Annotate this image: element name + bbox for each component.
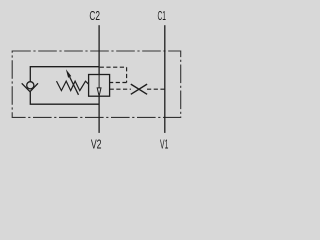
relief valve flow arrow [97, 75, 101, 97]
svg-text:V2: V2 [91, 136, 102, 151]
wire C2 port line [98, 25, 100, 74]
wire V2 port line [98, 96, 100, 133]
spring (adjustable) [57, 81, 89, 91]
check valve CV1 (ball and seat) [22, 82, 38, 92]
svg-text:C1: C1 [157, 8, 166, 23]
vent line (dashed) to plugged port [110, 88, 131, 90]
wire C1-V1 port line [164, 25, 166, 133]
valve envelope (dash-dot boundary box) [12, 51, 181, 117]
adjustment arrow [66, 69, 79, 95]
wire top rail [30, 67, 99, 82]
pilot line (dashed) from C2 line to spring chamber [100, 67, 127, 82]
svg-text:C2: C2 [89, 8, 100, 23]
svg-text:V1: V1 [160, 136, 168, 151]
wire bottom rail [30, 92, 99, 105]
relief valve body (square) [89, 75, 110, 97]
plugged port X [131, 84, 147, 94]
